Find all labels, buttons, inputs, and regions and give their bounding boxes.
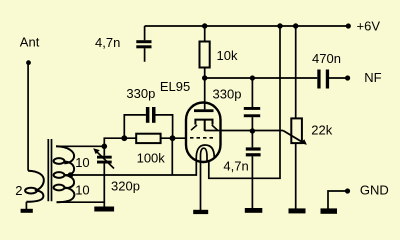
svg-text:EL95: EL95 xyxy=(160,79,190,94)
svg-text:GND: GND xyxy=(360,183,389,198)
svg-text:10k: 10k xyxy=(217,48,238,63)
svg-text:100k: 100k xyxy=(137,150,166,165)
svg-text:470n: 470n xyxy=(312,51,341,66)
svg-text:10: 10 xyxy=(75,183,89,198)
svg-text:Ant: Ant xyxy=(20,34,40,49)
svg-text:320p: 320p xyxy=(111,179,140,194)
svg-text:10: 10 xyxy=(75,155,89,170)
svg-text:4,7n: 4,7n xyxy=(95,35,120,50)
svg-text:+6V: +6V xyxy=(357,18,381,33)
svg-text:4,7n: 4,7n xyxy=(223,158,248,173)
svg-text:330p: 330p xyxy=(213,87,242,102)
svg-text:330p: 330p xyxy=(126,86,155,101)
svg-text:NF: NF xyxy=(364,70,381,85)
svg-text:22k: 22k xyxy=(311,122,332,137)
svg-text:2: 2 xyxy=(15,183,22,198)
